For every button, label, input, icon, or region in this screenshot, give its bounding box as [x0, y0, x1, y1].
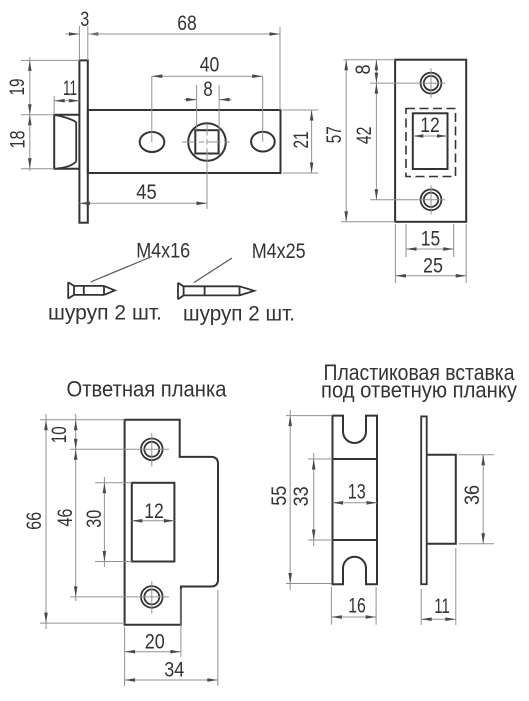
dimension 34 (overall width with tab): [125, 590, 218, 686]
central square spindle hole 8mm: [195, 130, 218, 153]
svg-text:11: 11: [63, 77, 77, 100]
dimension 40 (hole spacing): [152, 54, 263, 143]
dimension 13 (insert inner width): [333, 481, 378, 505]
dimension 30 (opening height, strike plate): [83, 477, 132, 567]
title Ответная планка: [67, 377, 228, 402]
svg-text:шуруп 2 шт.: шуруп 2 шт.: [48, 302, 162, 325]
dimension 33 (middle section height): [290, 453, 333, 546]
svg-text:8: 8: [352, 65, 375, 75]
svg-text:34: 34: [164, 659, 184, 682]
svg-text:19: 19: [6, 79, 29, 96]
insert side view block: [427, 455, 456, 544]
svg-text:68: 68: [177, 12, 197, 35]
dimension 8 (top edge to screw center): [344, 60, 446, 200]
dimension 36 (block height, side view): [459, 455, 494, 544]
caption шуруп 2 шт. (second): [183, 303, 295, 326]
svg-text:45: 45: [136, 181, 157, 204]
svg-text:46: 46: [54, 509, 77, 527]
latch body rectangle: [88, 110, 281, 173]
dashed plastic-insert outline on faceplate: [406, 109, 456, 177]
dimension 25 (faceplate width): [395, 224, 466, 283]
svg-text:66: 66: [23, 512, 46, 530]
dimension 20 (plate body width): [125, 589, 181, 686]
latch opening rectangle in faceplate: [413, 113, 448, 169]
top screw hole of faceplate: [421, 68, 442, 98]
svg-text:M4x25: M4x25: [252, 240, 306, 263]
dimension 21 (body height): [283, 110, 319, 173]
svg-text:12: 12: [144, 500, 164, 523]
svg-text:36: 36: [461, 485, 484, 505]
svg-text:Ответная планка: Ответная планка: [67, 377, 228, 402]
svg-text:15: 15: [421, 228, 441, 251]
latch faceplate (side view, vertical bar): [79, 60, 87, 222]
faceplate front view plate: [395, 60, 466, 222]
dimension 11 (insert depth, side view): [421, 548, 456, 625]
centerlines of spindle hole: [182, 124, 231, 209]
dimension 45 (faceplate to spindle center): [79, 181, 207, 205]
dimension 55 (insert length): [268, 410, 333, 590]
label M4x25 with leader: [194, 240, 306, 283]
title под ответную планку (line 2): [321, 378, 517, 403]
dimension 46 (screw hole spacing, strike plate): [54, 449, 169, 597]
insert middle section edges: [333, 459, 378, 540]
left oval hole in latch body: [140, 132, 165, 152]
strike plate latch opening 12x30: [132, 483, 175, 562]
svg-text:11: 11: [434, 595, 450, 618]
svg-text:21: 21: [290, 132, 313, 149]
svg-text:8: 8: [203, 78, 213, 101]
right oval hole in latch body: [251, 132, 275, 152]
svg-text:42: 42: [353, 127, 376, 145]
screw M4x16 body: [68, 282, 115, 298]
dimension 11 (bolt depth): [54, 77, 79, 115]
bottom screw hole of faceplate: [421, 185, 442, 214]
dimension 3 (faceplate thickness): [66, 8, 99, 60]
label M4x16 with leader: [91, 240, 191, 283]
svg-text:13: 13: [348, 481, 366, 504]
dimension 68 (body length): [88, 12, 280, 110]
strike plate outline with rounded tab: [125, 420, 218, 625]
svg-text:55: 55: [268, 486, 291, 506]
latch bolt (beveled tongue): [54, 115, 79, 169]
svg-text:под ответную планку: под ответную планку: [321, 378, 517, 403]
dimension 42 (screw hole spacing): [353, 83, 445, 200]
dimension 8 (square hole width): [184, 78, 232, 130]
svg-text:30: 30: [83, 510, 106, 528]
svg-text:20: 20: [145, 631, 165, 654]
strike plate bottom screw hole: [141, 581, 163, 614]
screw M4x25 body: [178, 283, 254, 300]
svg-text:25: 25: [423, 255, 443, 278]
dimension 19 (faceplate top to bolt): [6, 57, 79, 171]
svg-text:18: 18: [7, 131, 30, 149]
dimension 57 (faceplate length): [323, 60, 395, 222]
plastic insert front view outline with U-notches: [333, 416, 378, 585]
dimension 15 (insert width on faceplate): [406, 224, 454, 257]
dimension 18 (bolt height): [7, 115, 55, 169]
svg-text:12: 12: [420, 114, 440, 137]
dimension 10 (top edge to screw center): [40, 414, 169, 601]
svg-text:10: 10: [48, 426, 71, 443]
dimension 66 (strike plate length): [23, 414, 125, 629]
caption шуруп 2 шт. (first): [48, 302, 162, 325]
central spindle circle: [188, 123, 226, 161]
title Пластиковая вставка (line 1): [324, 360, 516, 385]
svg-text:57: 57: [323, 126, 346, 143]
dimension 16 (insert width): [331, 587, 376, 625]
svg-text:40: 40: [200, 54, 220, 77]
insert side view thin flange: [421, 416, 427, 584]
dimension 12 (opening width, strike plate): [132, 500, 175, 523]
strike plate top screw hole: [141, 433, 163, 466]
svg-text:16: 16: [348, 595, 366, 618]
svg-text:шуруп 2 шт.: шуруп 2 шт.: [183, 303, 295, 326]
dimension 12 (opening width, faceplate): [413, 114, 448, 138]
svg-text:33: 33: [290, 486, 313, 506]
